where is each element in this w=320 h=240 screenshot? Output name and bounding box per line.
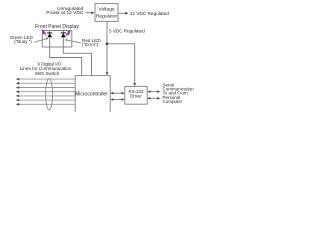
microcontroller U2 box (75, 76, 110, 115)
wire: red LED to microcontroller (63, 47, 91, 76)
junction dot (106, 43, 109, 46)
wire arrow 12 VDC out (118, 12, 126, 14)
wires: microcontroller to RS-232 (bidirectional) (112, 93, 123, 99)
bus ellipse over I/O lines (46, 79, 53, 110)
label: Serial Communication To and From Personal Computer (163, 82, 195, 104)
svg-text:Microcontroller: Microcontroller (75, 92, 108, 98)
arrowhead into RS-232 top (133, 83, 136, 86)
digital I/O bus wires (9 lines) with left arrowheads (18, 79, 75, 104)
leader line red (67, 40, 81, 43)
wires: RS-232 to serial (bidirectional) (149, 92, 159, 99)
RS-232 driver U3 box (125, 86, 147, 104)
green LED emission arrows (42, 30, 47, 36)
label: Green LED ("Busy") (10, 35, 34, 44)
svg-text:With Switch: With Switch (35, 71, 60, 76)
red LED emission arrows (65, 31, 70, 37)
svg-text:(“Error”): (“Error”) (82, 42, 99, 47)
svg-text:Front Panel Display: Front Panel Display (35, 24, 79, 30)
wire arrow into voltage regulator (85, 12, 92, 14)
front panel display box (42, 31, 72, 48)
svg-text:12 VDC Regulated: 12 VDC Regulated (130, 11, 169, 16)
label: Red LED ("Error") (82, 38, 101, 47)
voltage regulator U1 box (95, 4, 118, 22)
svg-text:Power at 12 VDC: Power at 12 VDC (46, 10, 84, 16)
wire: 5VDC vertical from regulator (106, 21, 108, 75)
leader line green (34, 39, 47, 43)
arrowhead into microcontroller top (106, 72, 109, 75)
svg-text:(“Busy ”): (“Busy ”) (14, 39, 32, 44)
svg-text:Regulator: Regulator (96, 14, 118, 20)
green LED D1 (47, 31, 52, 48)
svg-text:Computer: Computer (163, 99, 183, 104)
wire: green LED to microcontroller (50, 47, 82, 76)
svg-text:Driver: Driver (130, 93, 142, 98)
wire branch to RS-232 (107, 44, 135, 84)
svg-text:5 VDC Regulated: 5 VDC Regulated (109, 28, 145, 33)
label: Unregulated Power at 12 VDC (46, 6, 84, 16)
svg-text:Voltage: Voltage (98, 6, 115, 12)
red LED D2 (61, 31, 66, 48)
label: 9 Digital I/O Lines for Communication With Switch (20, 62, 72, 76)
